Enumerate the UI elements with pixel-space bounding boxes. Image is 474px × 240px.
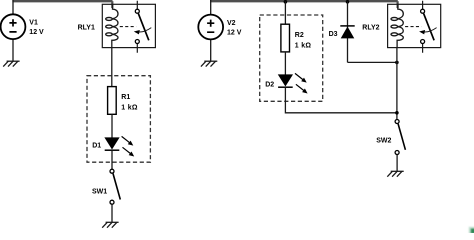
svg-text:V1: V1 xyxy=(29,20,38,27)
svg-text:RLY2: RLY2 xyxy=(362,24,379,31)
svg-text:12 V: 12 V xyxy=(227,30,242,37)
svg-text:R1: R1 xyxy=(121,94,130,101)
svg-text:D2: D2 xyxy=(265,82,274,89)
svg-text:D3: D3 xyxy=(329,31,338,38)
svg-text:1 kΩ: 1 kΩ xyxy=(295,42,312,49)
svg-text:12 V: 12 V xyxy=(29,29,44,36)
svg-text:V2: V2 xyxy=(227,20,236,27)
svg-text:R2: R2 xyxy=(295,32,304,39)
svg-text:SW2: SW2 xyxy=(376,138,391,145)
svg-text:SW1: SW1 xyxy=(92,189,107,196)
svg-text:1 kΩ: 1 kΩ xyxy=(121,105,138,112)
svg-text:D1: D1 xyxy=(92,143,101,150)
svg-text:RLY1: RLY1 xyxy=(78,24,95,31)
